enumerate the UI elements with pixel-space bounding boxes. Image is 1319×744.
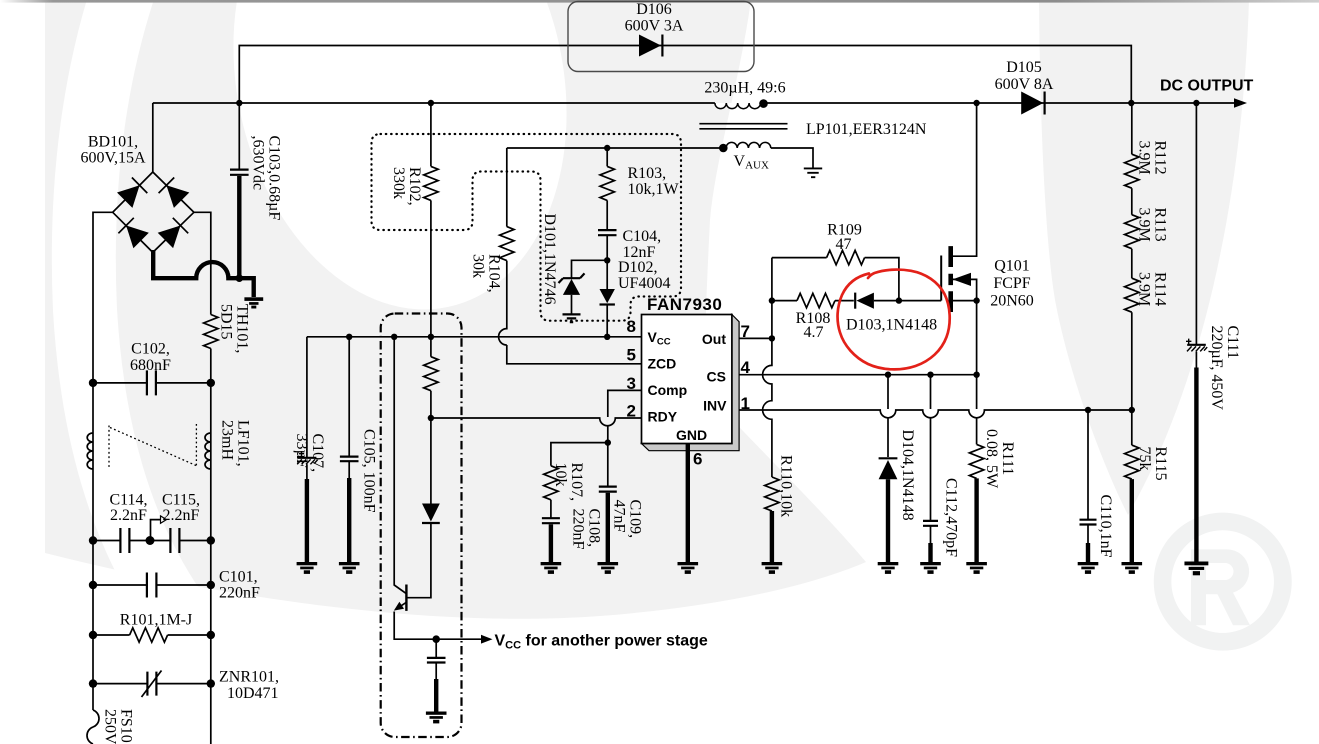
bold wire: bridge bottom vertex to ground with hop over right rail <box>153 250 254 297</box>
capacitor C106 leads <box>435 639 437 679</box>
junction R109/gate node <box>896 297 902 303</box>
IC body U101 FAN7930 <box>642 315 732 444</box>
boost inductor LP101 primary winding (on main rail) <box>715 103 761 109</box>
wire: bridge left vertex to left rail <box>93 212 113 710</box>
ground C109 <box>598 562 619 574</box>
resistor R106 (bias, in dash-dot box) <box>424 357 438 391</box>
svg-text:GND: GND <box>676 427 707 443</box>
wire: INV pin 1 with hops <box>739 410 1132 418</box>
thermistor TH101 <box>204 315 218 349</box>
junction R102 top on main rail <box>428 100 434 106</box>
junction C114/C115 midpoint <box>146 536 155 545</box>
capacitor C109 bold stem <box>606 493 610 563</box>
svg-text:R1110.08, 5W: R1110.08, 5W <box>983 429 1016 489</box>
svg-text:220nF: 220nF <box>219 585 260 602</box>
svg-text:C109,47nF: C109,47nF <box>611 500 644 539</box>
ground C111 <box>1184 562 1208 576</box>
svg-text:C110,1nF: C110,1nF <box>1097 495 1114 558</box>
IC 3D shadow <box>642 315 740 451</box>
divider chain lead <box>1131 103 1133 410</box>
varistor ZNR101 plates and slash <box>147 672 156 696</box>
diode D104 bold stem <box>886 479 890 563</box>
junction D106 loop return <box>1128 100 1134 106</box>
svg-text:C112,470pF: C112,470pF <box>943 478 960 557</box>
transistor Q102 emitter with arrow <box>398 602 406 607</box>
svg-text:2.2nF: 2.2nF <box>110 507 147 524</box>
capacitor C109 plates <box>599 487 617 492</box>
junction RDY node <box>428 415 434 421</box>
wire: source <box>951 300 977 302</box>
capacitor C110 bold stem <box>1086 543 1090 563</box>
wire: drain from main rail <box>951 103 977 256</box>
svg-text:10k,1W: 10k,1W <box>628 181 680 198</box>
diode D104 leads <box>887 375 889 457</box>
DC OUTPUT arrowhead <box>1234 98 1247 108</box>
diode D106 <box>639 35 661 57</box>
capacitor C105 plates <box>340 457 359 462</box>
svg-text:R110,10k: R110,10k <box>778 455 795 517</box>
ground R110 <box>762 562 783 574</box>
wire: branch to zener D101 <box>572 260 608 278</box>
resistor R109 <box>827 250 865 264</box>
svg-text:D104,1N4148: D104,1N4148 <box>899 430 916 521</box>
svg-text:VCC for another power stage: VCC for another power stage <box>495 633 708 652</box>
wire: source down to CS node <box>976 301 978 445</box>
bridge diode bottom-left <box>118 218 148 248</box>
red hand-drawn circle around D103 <box>838 270 950 370</box>
watermark gray field left (giant logo body) <box>45 0 866 619</box>
junction Comp filter node <box>605 439 611 445</box>
capacitor C114 plates <box>120 528 129 553</box>
junction R115 / divider bottom <box>1129 407 1135 413</box>
diode D103 (pointing left) <box>854 293 856 309</box>
node: R101 row <box>93 634 211 636</box>
wire: base branch vertical from R102 node <box>430 337 432 418</box>
ground GND pin 6 <box>678 562 699 574</box>
ground C110 <box>1078 562 1099 574</box>
resistor R110 <box>765 477 779 511</box>
resistor R108 <box>797 293 835 307</box>
wire: R104/ZCD vertical with hop over VCC rail <box>499 148 642 364</box>
svg-text:Q101: Q101 <box>994 258 1030 275</box>
junction main rail / D106 loop / C103 <box>236 100 242 106</box>
ground C112 <box>920 562 941 574</box>
wire: D106 bypass loop top <box>239 46 1131 104</box>
resistor R102 leads <box>430 103 432 337</box>
svg-text:C111220µF, 450V: C111220µF, 450V <box>1208 326 1241 411</box>
wire: collector branch vertical <box>394 337 406 594</box>
svg-text:10D471: 10D471 <box>227 685 279 702</box>
ground (bridge return) <box>244 297 263 308</box>
svg-text:UF4004: UF4004 <box>618 275 670 292</box>
resistor R115 lead <box>1131 410 1133 445</box>
svg-text:20N60: 20N60 <box>990 293 1034 310</box>
wire: base branch to diode <box>430 418 432 504</box>
junction source node <box>973 297 979 303</box>
capacitor C105 leads <box>348 337 350 478</box>
arrowhead VCC output <box>481 635 493 644</box>
svg-text:230µH, 49:6: 230µH, 49:6 <box>704 80 785 97</box>
MOSFET Q101 gate bar <box>940 256 942 301</box>
svg-text:600V,15A: 600V,15A <box>80 149 145 166</box>
ground C105 <box>339 562 360 574</box>
resistor R112 <box>1125 154 1139 188</box>
wire: Out pin 7 <box>739 337 772 339</box>
ground VAUX (earth bars) <box>804 168 822 177</box>
wire: gate drive vertical with hops over CS and INV <box>763 258 772 477</box>
wire: VCC horizontal rail to pin 8 <box>307 336 642 338</box>
wire: bridge top vertex to main rail <box>152 103 154 172</box>
ground C106 <box>426 712 447 724</box>
ground R111 <box>966 562 987 574</box>
capacitor C107 lower lead (bold) <box>306 465 308 480</box>
capacitor C110 plates <box>1080 520 1097 525</box>
wire: D103 to gate <box>874 300 941 302</box>
svg-text:ZNR101,: ZNR101, <box>219 669 279 686</box>
capacitor C110 lead <box>1087 410 1089 543</box>
svg-text:D102,: D102, <box>618 259 658 276</box>
capacitor C111 hatched plate <box>1187 344 1206 346</box>
capacitor C109 lead <box>607 443 609 487</box>
svg-text:INV: INV <box>703 398 727 414</box>
svg-text:6: 6 <box>693 450 702 469</box>
svg-text:R1143.9M: R1143.9M <box>1136 272 1169 306</box>
svg-text:D106: D106 <box>636 1 672 18</box>
choke LF101 left coil <box>87 433 93 469</box>
ground R115 <box>1122 562 1143 574</box>
wire: main top horizontal rail (DC bus) <box>153 102 1240 104</box>
junction R111 top / source line <box>973 372 979 378</box>
capacitor C112 plates <box>923 521 938 526</box>
diode D104 (pointing up) <box>879 457 898 459</box>
svg-text:LP101,EER3124N: LP101,EER3124N <box>806 121 927 138</box>
junction R102 bottom node <box>428 334 434 340</box>
capacitor C115 plates <box>170 528 179 553</box>
svg-text:4.7: 4.7 <box>804 324 824 341</box>
junction C106 top <box>432 635 440 643</box>
diode D107 (series, pointing down) <box>422 504 440 522</box>
capacitor C103 bold lower lead <box>237 176 241 278</box>
dash-dot box (VCC supply for another stage) <box>381 314 462 738</box>
wire: bridge right vertex to right rail <box>194 212 211 314</box>
svg-text:5: 5 <box>627 346 636 365</box>
resistor R101 <box>130 628 168 642</box>
capacitor C107 hatched plate <box>297 457 316 459</box>
capacitor C107 lead and + mark <box>306 337 308 458</box>
wire: RDY pin 2 with hop under Comp line <box>431 418 642 426</box>
earth stub arrow at C114/C115 midpoint <box>151 520 161 541</box>
diode D102 leads <box>606 260 608 337</box>
MOSFET Q101 channel dashes <box>948 246 953 312</box>
junction R108 left <box>769 297 775 303</box>
capacitor C112 bold stem <box>928 543 932 563</box>
watermark registered-R logo bottom right <box>1154 513 1292 651</box>
wire: emitter to output node <box>394 612 482 640</box>
capacitor C103 lead from main rail <box>238 103 240 169</box>
capacitor C108 bold stem <box>549 524 553 563</box>
node: C101 row <box>93 584 211 586</box>
svg-text:VAUX: VAUX <box>734 153 769 172</box>
dotted outline around startup/ZCD network <box>372 134 682 321</box>
capacitor C101 plates <box>147 573 157 598</box>
wire: Comp pin 3 <box>608 390 642 442</box>
svg-text:FCPF: FCPF <box>993 275 1030 292</box>
svg-text:RDY: RDY <box>648 409 678 425</box>
node: C102 row <box>93 382 211 384</box>
resistor R111 bold stem <box>974 478 978 563</box>
fuse FS101 on left rail <box>87 710 99 744</box>
junction C110 top <box>1085 407 1091 413</box>
junction D102 cathode on VCC rail <box>604 334 610 340</box>
watermark white inner gap band <box>192 0 607 341</box>
svg-text:ZCD: ZCD <box>648 355 677 371</box>
zener diode D101 <box>559 273 585 283</box>
choke LF101 coupling dotted marks <box>109 424 196 467</box>
svg-text:600V 8A: 600V 8A <box>995 76 1054 93</box>
resistor R104 <box>500 227 514 261</box>
junction C105 top <box>346 334 352 340</box>
watermark gray ring arc right <box>1039 0 1249 515</box>
node: ZNR101 row <box>93 683 211 685</box>
svg-text:8: 8 <box>627 317 636 336</box>
aux winding coil <box>726 142 771 148</box>
bridge diode top-left <box>117 178 147 208</box>
transistor Q102 base bar <box>405 585 407 611</box>
resistor R111 <box>969 444 983 478</box>
watermark white ring arc left <box>84 0 175 610</box>
resistor R113 <box>1125 215 1139 249</box>
capacitor C111 lead and + mark <box>1195 103 1197 344</box>
junction C112 top <box>927 372 933 378</box>
svg-text:C107,33µF: C107,33µF <box>293 434 326 473</box>
junction C111 top <box>1193 100 1199 106</box>
svg-text:C114,: C114, <box>109 492 147 509</box>
capacitor C103 plates <box>230 170 249 175</box>
aux winding polarity dot <box>719 144 728 153</box>
svg-text:C104,: C104, <box>623 228 662 245</box>
resistor R102 <box>424 166 438 200</box>
wire: aux winding to R103 top <box>507 147 724 149</box>
junction D104 top <box>885 372 891 378</box>
svg-text:LF101,23mH: LF101,23mH <box>219 420 252 467</box>
junction collector branch top <box>391 334 397 340</box>
diode D102 (pointing down) <box>600 289 615 303</box>
junction R103 top <box>604 145 610 151</box>
wire: diode to transistor base <box>408 523 431 598</box>
svg-text:R1123.9M: R1123.9M <box>1136 141 1169 175</box>
resistor R115 bold stem <box>1130 479 1134 563</box>
svg-text:C115,: C115, <box>162 492 200 509</box>
diode D105 <box>1021 92 1043 115</box>
top gradient bar <box>0 0 1319 3</box>
transformer core lines <box>699 124 787 129</box>
svg-text:CS: CS <box>707 368 726 384</box>
wire: Comp node to R107 <box>551 443 608 518</box>
resistor R103 <box>600 166 614 200</box>
svg-text:FAN7930: FAN7930 <box>647 295 722 314</box>
junction MOSFET drain on main rail <box>973 100 979 106</box>
svg-text:FS101,250V: FS101,250V <box>102 709 135 744</box>
ground D104 <box>878 562 899 574</box>
svg-text:C102,: C102, <box>131 341 170 358</box>
bridge rectifier BD101 diamond <box>113 172 194 252</box>
capacitor C106 plates <box>427 658 446 663</box>
svg-text:BD101,: BD101, <box>88 134 138 151</box>
svg-text:47: 47 <box>836 236 852 253</box>
resistor R114 <box>1125 278 1139 312</box>
ground C108 <box>541 562 562 574</box>
junction bold C103/bridge ground node <box>236 274 244 282</box>
wire: right rail below TH101 <box>210 349 212 744</box>
capacitor C108 plates <box>542 518 560 523</box>
svg-text:Out: Out <box>702 331 726 347</box>
capacitor C106 bold stem <box>434 679 438 712</box>
wire: CS pin 4 <box>739 374 977 376</box>
wire: GND pin 6 bold <box>686 444 690 563</box>
svg-text:2.2nF: 2.2nF <box>163 507 200 524</box>
junction Out pin <box>769 335 775 341</box>
resistor R107 <box>544 466 558 500</box>
svg-text:600V 3A: 600V 3A <box>625 18 684 35</box>
svg-text:Comp: Comp <box>648 382 688 398</box>
capacitor C112 leads <box>930 375 932 543</box>
D106 box outline <box>568 2 754 72</box>
wire: aux winding to ground <box>771 148 813 168</box>
winding polarity dot primary <box>759 99 768 108</box>
ground C107 <box>297 562 318 574</box>
capacitor C105 bold stem <box>347 478 351 563</box>
svg-text:R101,1M-J: R101,1M-J <box>120 612 192 629</box>
svg-text:R1133.9M: R1133.9M <box>1136 208 1169 242</box>
capacitor C111 leads / bold stem <box>1195 352 1197 368</box>
resistor R103 leads <box>606 148 608 260</box>
resistor R108 leads <box>772 300 854 302</box>
svg-text:680nF: 680nF <box>130 357 171 374</box>
capacitor C104 plates <box>598 230 617 235</box>
node: C114/C115 row <box>93 540 211 542</box>
svg-text:C101,: C101, <box>219 569 258 586</box>
svg-text:C108,220nF: C108,220nF <box>570 509 603 550</box>
resistor R110 bold stem <box>770 511 774 563</box>
resistor R115 <box>1125 445 1139 479</box>
svg-text:D103,1N4148: D103,1N4148 <box>846 317 937 334</box>
choke LF101 right coil <box>205 433 211 469</box>
svg-text:C105, 100nF: C105, 100nF <box>361 429 378 513</box>
svg-text:DC OUTPUT: DC OUTPUT <box>1160 78 1254 95</box>
svg-text:R103,: R103, <box>628 165 667 182</box>
ground D101 (earth bars) <box>563 314 581 322</box>
svg-text:D101,1N4746: D101,1N4746 <box>541 214 558 305</box>
junction D101/D102 node <box>604 257 610 263</box>
bridge diode bottom-right <box>158 218 189 248</box>
svg-text:D105: D105 <box>1006 59 1042 76</box>
capacitor C102 plates <box>147 370 156 395</box>
bridge diode top-right <box>159 178 190 208</box>
MOSFET body arrow <box>951 279 977 300</box>
resistor R109 leads <box>772 258 899 301</box>
